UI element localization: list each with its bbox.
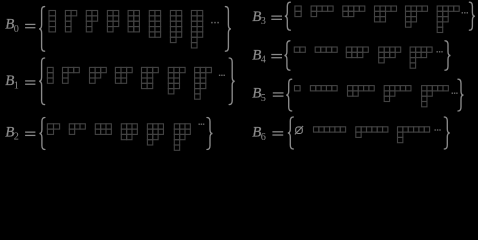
Young wall B_4 shape 4 (4,3,1) <box>379 47 401 63</box>
opening brace (B_2) <box>39 118 45 150</box>
closing brace (B_4) <box>445 41 451 70</box>
label B_5 <box>252 86 266 104</box>
Young wall B_4 shape 2 (4) <box>315 47 337 52</box>
ellipsis dots (B_2) <box>199 124 205 125</box>
Young wall B_1 shape 1 (1,1,1) <box>47 67 53 83</box>
Young wall B_0 shape 7 (2,2,2,2,2,1) <box>170 11 181 43</box>
closing brace (B_2) <box>207 118 213 150</box>
equals sign (B_0) <box>25 24 35 29</box>
Young wall B_0 shape 8 (2,2,2,2,2,1,1) <box>191 11 202 48</box>
Young wall B_2 shape 6 (3,3,2,1,1) <box>174 124 190 151</box>
label B_2 <box>5 124 19 142</box>
ellipsis dots (B_0) <box>211 22 219 24</box>
svg-text:0: 0 <box>14 24 19 35</box>
equals sign (B_1) <box>25 80 35 85</box>
Young wall B_1 shape 5 (3,2,2,2) <box>142 67 159 88</box>
equals sign (B_3) <box>271 16 282 20</box>
Young wall B_0 shape 2 (2,1,1,1) <box>65 11 76 32</box>
closing brace (B_0) <box>225 7 231 52</box>
svg-text:1: 1 <box>14 80 19 91</box>
Young wall B_4 shape 3 (4,3) <box>346 47 368 58</box>
svg-text:2: 2 <box>14 132 19 143</box>
Young wall B_1 shape 6 (3,2,2,2,1) <box>168 67 185 94</box>
Young wall B_3 shape 4 (4,2,2) <box>375 6 397 22</box>
Young wall B_3 shape 5 (4,2,2,1) <box>406 6 428 27</box>
Young wall B_5 shape 5 (5,2,1,1) <box>422 86 449 107</box>
opening brace (B_6) <box>288 117 294 149</box>
opening brace (B_4) <box>284 41 290 70</box>
Young wall B_1 shape 7 (3,2,2,2,1,1) <box>195 67 212 99</box>
closing brace (B_3) <box>469 2 475 30</box>
opening brace (B_0) <box>39 7 45 52</box>
opening brace (B_5) <box>286 79 292 111</box>
label B_4 <box>252 47 266 65</box>
Young wall B_2 shape 1 (2,1) <box>47 124 59 135</box>
Young wall B_2 shape 2 (3,1) <box>69 124 85 135</box>
Young wall B_1 shape 4 (3,2,2) <box>115 67 132 83</box>
equals sign (B_6) <box>272 131 283 135</box>
Young wall B_0 shape 4 (2,2,2,1) <box>107 11 118 32</box>
Young wall B_1 shape 2 (3,1,1) <box>63 67 80 83</box>
closing brace (B_6) <box>444 117 450 149</box>
ellipsis dots (B_1) <box>219 75 225 76</box>
Young wall B_6 shape 3 (6,1) <box>356 127 388 138</box>
Young wall B_2 shape 5 (3,3,2,1) <box>147 124 163 145</box>
equals sign (B_5) <box>273 92 284 96</box>
Young wall B_3 shape 1 (1,1) <box>295 6 301 17</box>
Young wall B_6 shape 4 (6,1,1) <box>398 127 430 143</box>
ellipsis dots (B_5) <box>452 93 458 94</box>
label B_6 <box>252 125 266 143</box>
Young wall B_3 shape 3 (4,2) <box>343 6 365 17</box>
Young wall B_4 shape 1 (2) <box>294 47 305 52</box>
Young wall B_5 shape 1 (1) <box>295 86 301 91</box>
label B_1 <box>5 73 19 91</box>
svg-text:6: 6 <box>261 132 266 143</box>
Young wall B_6 shape 2 (6) <box>314 127 346 132</box>
Young wall B_3 shape 6 (4,2,2,1,1) <box>437 6 459 33</box>
svg-text:3: 3 <box>261 16 266 27</box>
label B_3 <box>252 9 266 27</box>
Young wall B_0 shape 1 (1,1,1,1) <box>49 11 56 32</box>
ellipsis dots (B_6) <box>435 129 441 130</box>
Young wall B_5 shape 3 (5,2) <box>348 86 375 97</box>
svg-text:4: 4 <box>261 55 266 66</box>
Young wall B_2 shape 3 (3,3) <box>95 124 111 135</box>
Young wall B_2 shape 4 (3,3,2) <box>121 124 137 140</box>
Young wall B_5 shape 2 (5) <box>310 86 337 91</box>
closing brace (B_5) <box>458 79 464 111</box>
opening brace (B_3) <box>285 2 291 30</box>
ellipsis dots (B_4) <box>437 51 443 52</box>
Young wall B_0 shape 3 (2,2,1,1) <box>86 11 97 32</box>
Young wall B_1 shape 3 (3,2,1) <box>90 67 107 83</box>
empty set symbol (B_6 first element) <box>295 126 303 134</box>
opening brace (B_1) <box>39 58 45 105</box>
Young wall B_0 shape 5 (2,2,2,2) <box>128 11 139 32</box>
ellipsis dots (B_3) <box>462 12 468 13</box>
svg-text:5: 5 <box>261 93 266 104</box>
label B_0 <box>5 17 19 35</box>
Young wall B_5 shape 4 (5,2,1) <box>384 86 411 102</box>
closing brace (B_1) <box>229 58 235 105</box>
Young wall B_3 shape 2 (4,1) <box>311 6 333 17</box>
equals sign (B_2) <box>25 132 35 137</box>
Young wall B_4 shape 5 (4,3,1,1) <box>410 47 432 68</box>
Young wall B_0 shape 6 (2,2,2,2,2) <box>149 11 160 38</box>
equals sign (B_4) <box>271 54 282 58</box>
